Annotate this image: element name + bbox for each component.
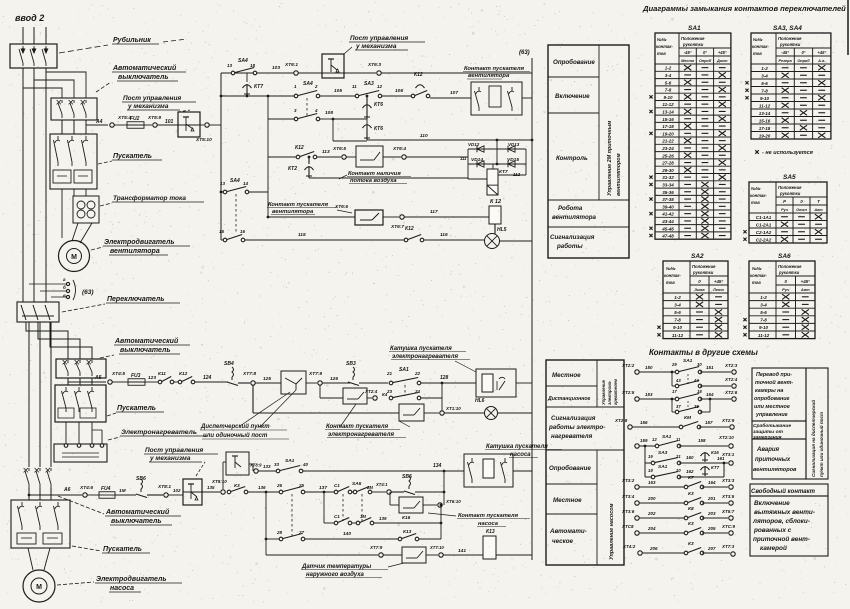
- heater starter coil box (катушка пускателя электронагревателя): [476, 369, 516, 397]
- lamp HL5: [485, 234, 500, 249]
- svg-text:17-18: 17-18: [759, 126, 771, 131]
- svg-text:SA5: SA5: [783, 174, 796, 181]
- wire starter to heater element: [65, 422, 67, 443]
- svg-text:ХТ2:4: ХТ2:4: [724, 377, 738, 382]
- svg-text:18: 18: [250, 63, 256, 68]
- wire diode bottom rail: [468, 178, 487, 180]
- svg-text:или одиночный пост: или одиночный пост: [203, 432, 268, 439]
- svg-text:ХТ8:1: ХТ8:1: [157, 484, 171, 490]
- svg-text:М: М: [71, 254, 77, 261]
- svg-text:140: 140: [343, 531, 351, 537]
- button SB3: [353, 367, 355, 377]
- pump table divider: [596, 450, 598, 565]
- wire starter to motor M2: [28, 548, 33, 570]
- svg-text:Свободный контакт: Свободный контакт: [751, 488, 816, 495]
- svg-text:101: 101: [165, 119, 174, 125]
- svg-text:рукоятки: рукоятки: [779, 42, 801, 47]
- svg-text:- не используется: - не используется: [762, 150, 814, 156]
- wire left control bus fan: [220, 73, 222, 240]
- table SA3, SA4 frame: [751, 33, 831, 139]
- svg-text:137: 137: [319, 485, 327, 491]
- svg-text:15: 15: [219, 229, 225, 234]
- svg-text:пункт или одиночный пост: пункт или одиночный пост: [818, 412, 824, 477]
- svg-text:2М: 2М: [366, 485, 373, 490]
- wire 134 to pump coil box: [303, 470, 464, 472]
- svg-text:15-16: 15-16: [759, 118, 771, 123]
- svg-text:Лето: Лето: [712, 287, 724, 292]
- svg-text:Пост управления: Пост управления: [145, 447, 203, 454]
- svg-text:камеры на: камеры на: [755, 388, 783, 394]
- svg-text:№№: №№: [657, 37, 667, 42]
- rung4 wire K12: [268, 156, 298, 158]
- svg-text:выключатель: выключатель: [111, 518, 162, 525]
- svg-text:1-2: 1-2: [665, 66, 672, 71]
- svg-text:3-4: 3-4: [665, 73, 672, 78]
- svg-text:Пускатель: Пускатель: [103, 546, 142, 553]
- svg-text:вентиляторов: вентиляторов: [753, 467, 797, 473]
- svg-text:37: 37: [676, 404, 681, 409]
- svg-text:тов: тов: [753, 51, 762, 56]
- svg-text:23-24: 23-24: [661, 146, 674, 151]
- contact row 159 SA1 12-11 158 XT2:10: [635, 444, 639, 448]
- svg-text:насоса: насоса: [110, 585, 134, 592]
- svg-text:рованных с: рованных с: [753, 527, 792, 534]
- wire 106: [382, 95, 413, 97]
- svg-text:30: 30: [697, 362, 702, 367]
- svg-text:Контроль: Контроль: [556, 155, 588, 162]
- wire XT5:10 to control bus: [209, 124, 221, 126]
- wire coil right connect: [498, 174, 526, 176]
- diode VD14: [477, 161, 484, 167]
- svg-text:Авт: Авт: [800, 287, 810, 292]
- svg-text:ХТ7:9: ХТ7:9: [369, 545, 383, 550]
- pump starter aux contact box К16: [389, 492, 391, 505]
- wire 101: [157, 124, 178, 126]
- svg-text:113: 113: [322, 149, 330, 155]
- terminal XT8:10: [221, 490, 225, 494]
- svg-text:17-18: 17-18: [662, 124, 674, 129]
- svg-text:41-42: 41-42: [661, 212, 674, 217]
- svg-text:Контакт пускателя: Контакт пускателя: [464, 66, 525, 72]
- svg-text:SB6: SB6: [136, 476, 146, 482]
- svg-text:Переключатель: Переключатель: [107, 296, 164, 303]
- contact SA4 3-4: [294, 117, 298, 121]
- svg-text:28: 28: [276, 530, 283, 535]
- svg-text:Положение: Положение: [681, 36, 705, 41]
- svg-text:Перевод при-: Перевод при-: [756, 372, 792, 378]
- svg-text:Дистанционное: Дистанционное: [547, 396, 591, 402]
- relay coil К13: [483, 536, 496, 559]
- svg-text:ввод 2: ввод 2: [15, 13, 44, 23]
- wire selector to heater breaker: [26, 322, 68, 359]
- wire diode row bottom: [468, 163, 526, 165]
- svg-text:11-12: 11-12: [758, 333, 770, 338]
- svg-text:контак-: контак-: [750, 273, 767, 278]
- wire control tap A5: [67, 378, 69, 382]
- contact К11: [158, 380, 162, 384]
- wire second path heater: [319, 385, 321, 398]
- wire 128: [421, 382, 476, 384]
- svg-text:замерзания: замерзания: [753, 436, 782, 441]
- svg-text:Управление насосом: Управление насосом: [609, 503, 615, 560]
- label Рубильник with leader: [59, 45, 108, 53]
- svg-text:37-38: 37-38: [662, 197, 674, 202]
- svg-text:Сигнализация: Сигнализация: [551, 415, 596, 422]
- svg-text:134: 134: [433, 463, 442, 469]
- contact 1М rung C: [352, 522, 358, 524]
- terminal XT8:1: [164, 493, 168, 497]
- svg-text:ХТ8:10: ХТ8:10: [211, 479, 227, 484]
- svg-text:135: 135: [207, 485, 215, 490]
- rung3 wire: [268, 118, 296, 120]
- wire 108: [320, 118, 333, 120]
- svg-text:31-32: 31-32: [662, 175, 674, 180]
- svg-text:тов: тов: [752, 280, 761, 285]
- wire 126: [322, 382, 350, 384]
- heater contact box 2: [343, 388, 367, 404]
- svg-text:КТ2: КТ2: [288, 166, 297, 172]
- svg-text:(63): (63): [82, 289, 94, 296]
- svg-text:19-20: 19-20: [662, 131, 674, 136]
- contact row XT2:2 150 SA1 29-30 151 XT2:3: [635, 370, 639, 374]
- svg-text:Руч: Руч: [781, 208, 789, 212]
- circuit breaker QF3 pump: [28, 468, 30, 471]
- svg-text:КТ7: КТ7: [711, 465, 720, 470]
- svg-text:156: 156: [640, 420, 648, 425]
- svg-text:3-4: 3-4: [674, 302, 681, 307]
- contact 26-25: [279, 490, 283, 494]
- svg-text:Катушка пускателя: Катушка пускателя: [486, 444, 548, 450]
- svg-text:HL5: HL5: [497, 227, 507, 233]
- svg-text:ХТ4:1: ХТ4:1: [375, 482, 388, 487]
- contact 23-24: [389, 396, 393, 400]
- vertical strip Сигнализация на диспетчерский пункт: [806, 368, 828, 479]
- svg-text:приточной вент-: приточной вент-: [753, 535, 810, 543]
- svg-text:К11: К11: [158, 371, 166, 377]
- relay coil КТ7: [492, 164, 494, 169]
- wire feeder phase B down: [33, 68, 35, 302]
- svg-text:нагревателя: нагревателя: [551, 433, 593, 440]
- vertical join x441: [440, 505, 442, 539]
- svg-text:ХТ6:7: ХТ6:7: [390, 224, 404, 230]
- svg-text:110: 110: [420, 133, 428, 139]
- contact К12 rung4: [296, 155, 300, 159]
- contact К12 rung2: [411, 94, 415, 98]
- contact C1 rung C: [334, 521, 338, 525]
- svg-text:13: 13: [227, 63, 233, 68]
- svg-text:1: 1: [294, 84, 297, 89]
- svg-text:Включение: Включение: [754, 500, 790, 507]
- dispatcher post box 1: [281, 371, 306, 394]
- circuit breaker QF2 heater: [56, 359, 106, 378]
- contact SA4 13-18: [231, 71, 235, 75]
- svg-text:SB3: SB3: [346, 361, 356, 367]
- svg-text:А6: А6: [63, 487, 71, 493]
- wire SB5 up to coil rung: [443, 471, 445, 505]
- svg-text:SA1: SA1: [662, 434, 672, 440]
- svg-text:Положение: Положение: [778, 36, 802, 41]
- wire К12 coil to lamp: [494, 224, 496, 234]
- svg-text:Датчик температуры: Датчик температуры: [301, 564, 372, 570]
- svg-text:43-44: 43-44: [661, 219, 674, 224]
- terminal XT4:1: [372, 491, 386, 493]
- svg-text:-45°: -45°: [684, 50, 692, 55]
- svg-text:159: 159: [640, 438, 648, 443]
- current transformer TA1 (трансформатор тока): [73, 196, 99, 223]
- svg-text:ХТ6:4: ХТ6:4: [392, 146, 406, 152]
- table SA6 frame: [749, 261, 815, 339]
- description box Перевод приточной венткамеры: [752, 368, 806, 421]
- svg-text:SA3: SA3: [364, 81, 374, 87]
- svg-text:выключатель: выключатель: [118, 74, 169, 81]
- terminal XT5:9: [144, 124, 152, 126]
- wire selector to pump feeder: [28, 322, 30, 467]
- svg-text:116: 116: [440, 232, 448, 238]
- svg-text:К16: К16: [711, 450, 719, 455]
- svg-text:Сигнализация: Сигнализация: [550, 234, 595, 241]
- wire CT to motor M1: [72, 223, 78, 241]
- wire branch to breaker QF1 pole 2: [34, 80, 74, 98]
- svg-text:К7: К7: [688, 475, 694, 481]
- svg-text:22: 22: [414, 371, 421, 376]
- svg-text:125: 125: [263, 376, 271, 382]
- svg-text:ХТ2:4: ХТ2:4: [364, 389, 378, 394]
- svg-text:у механизма: у механизма: [149, 455, 191, 462]
- svg-text:ХТ2:6: ХТ2:6: [724, 390, 738, 395]
- svg-text:0: 0: [800, 199, 803, 204]
- svg-text:43: 43: [675, 378, 681, 383]
- svg-text:VD15: VD15: [507, 157, 519, 163]
- svg-text:SA4: SA4: [238, 58, 248, 64]
- svg-text:15-16: 15-16: [662, 117, 674, 122]
- svg-text:44: 44: [693, 378, 699, 383]
- svg-text:9-10: 9-10: [760, 96, 770, 101]
- heater pilot contact box 3: [399, 404, 424, 421]
- box Свободный контакт: [750, 484, 828, 496]
- svg-text:у механизма: у механизма: [127, 103, 169, 110]
- svg-text:SA6: SA6: [778, 253, 791, 260]
- fan starter contact box (контакт пускателя вентилятора): [471, 82, 522, 115]
- svg-text:47-48: 47-48: [661, 234, 674, 239]
- svg-text:12: 12: [377, 84, 383, 89]
- svg-text:7-8: 7-8: [761, 88, 768, 93]
- svg-text:33: 33: [274, 462, 280, 467]
- contact КТ6 upper: [366, 104, 368, 119]
- svg-text:насоса: насоса: [478, 521, 499, 527]
- svg-text:Положение: Положение: [778, 185, 802, 190]
- svg-text:А4: А4: [95, 119, 103, 125]
- contact SA1 33-40: [276, 469, 280, 473]
- svg-text:насоса: насоса: [510, 452, 531, 458]
- svg-text:207: 207: [707, 546, 716, 551]
- terminal XT6:3 and wire to right bus: [344, 72, 376, 74]
- wire 140: [305, 538, 400, 540]
- svg-text:Включение: Включение: [555, 93, 590, 100]
- knife switch QS1 (рубильник): [10, 44, 57, 68]
- fuse FU2: [114, 124, 127, 126]
- contact row XT3:4 200 К3 201 XT3:5: [635, 501, 639, 505]
- svg-text:-45°: -45°: [781, 50, 789, 55]
- wire tap б to sheet 63: [40, 290, 66, 292]
- svg-text:9-10: 9-10: [663, 95, 673, 100]
- heater table divider vertical: [596, 360, 598, 407]
- terminal XT4:5 + fuse FU3: [108, 380, 112, 384]
- button SB5: [409, 476, 411, 486]
- svg-text:КТ6: КТ6: [374, 102, 383, 108]
- svg-text:33-34: 33-34: [662, 182, 674, 187]
- svg-text:КТ7: КТ7: [254, 84, 263, 90]
- fan table divider vertical: [598, 45, 600, 200]
- svg-text:КМ: КМ: [684, 415, 692, 421]
- svg-text:151: 151: [706, 365, 714, 370]
- relay КТ7 symbol bottom: [704, 466, 706, 476]
- svg-text:4: 4: [314, 108, 318, 113]
- svg-text:1М: 1М: [360, 514, 366, 519]
- svg-text:Р: Р: [783, 199, 786, 204]
- wire 1М: [115, 494, 136, 496]
- svg-text:К3: К3: [234, 483, 240, 489]
- heater table rows: [546, 385, 597, 387]
- svg-text:С1-1А1: С1-1А1: [756, 215, 772, 220]
- heater-pump function table frame: [546, 360, 624, 565]
- svg-text:тов: тов: [666, 280, 675, 285]
- svg-text:115: 115: [298, 232, 306, 238]
- wire rung2 branch vertical: [267, 95, 270, 98]
- svg-text:ХТ1:10: ХТ1:10: [445, 406, 461, 411]
- svg-text:С2-1А2: С2-1А2: [756, 230, 772, 235]
- svg-text:25-26: 25-26: [661, 153, 674, 158]
- contact row SA3 19-21 160 К16 coil: [645, 462, 653, 464]
- table SA5 header: [775, 182, 777, 243]
- svg-text:К12: К12: [405, 226, 414, 232]
- svg-text:точной вент-: точной вент-: [755, 379, 793, 386]
- wire branch to breaker QF1 pole 1: [46, 72, 86, 98]
- table SA2 frame: [663, 261, 728, 339]
- svg-text:КТ7: КТ7: [499, 169, 508, 175]
- svg-text:Сигнализация на диспетчерски: Сигнализация на диспетчерский: [810, 400, 816, 477]
- contact SA4 1-2: [294, 94, 298, 98]
- svg-text:К12: К12: [295, 145, 304, 151]
- contact row XT2:8 156 КМ 157 XT2:9: [628, 425, 632, 429]
- svg-text:Контакт наличия: Контакт наличия: [348, 171, 401, 177]
- svg-text:7-8: 7-8: [674, 318, 681, 323]
- svg-text:23: 23: [386, 389, 393, 394]
- svg-text:0: 0: [698, 279, 701, 284]
- svg-text:11-12: 11-12: [759, 103, 771, 108]
- contact row SA1 19-20 162 КТ7: [645, 476, 653, 478]
- svg-text:Зима: Зима: [694, 287, 705, 292]
- svg-text:160: 160: [686, 455, 694, 460]
- svg-text:Резерв: Резерв: [779, 59, 793, 63]
- pump starter coil box (катушка пускателя насоса): [464, 454, 513, 487]
- wire КТ6 loop: [333, 118, 367, 120]
- svg-text:ХТ2:10: ХТ2:10: [718, 435, 734, 440]
- svg-text:ХТ3:3: ХТ3:3: [721, 478, 735, 483]
- svg-text:1М: 1М: [119, 488, 127, 494]
- svg-text:158: 158: [698, 438, 706, 443]
- svg-text:11-12: 11-12: [662, 102, 674, 107]
- svg-text:29: 29: [671, 362, 677, 367]
- svg-text:107: 107: [450, 90, 458, 96]
- svg-text:Электронагреватель: Электронагреватель: [121, 429, 197, 436]
- svg-text:К13: К13: [486, 529, 495, 535]
- svg-text:27-28: 27-28: [661, 161, 674, 166]
- svg-text:24: 24: [414, 389, 421, 394]
- svg-text:ХТ2:2: ХТ2:2: [621, 363, 635, 368]
- left vertical pump x266: [265, 492, 267, 555]
- wire 124 to SB4: [195, 381, 228, 383]
- description box Авария приточных вентиляторов: [752, 439, 806, 479]
- svg-text:приточных: приточных: [755, 457, 791, 463]
- wire 117 to К12 coil: [404, 216, 489, 218]
- svg-text:контак-: контак-: [656, 44, 673, 49]
- terminal XT6:5: [342, 155, 346, 159]
- svg-text:13: 13: [220, 181, 226, 186]
- wire 107 to starter-contact box: [430, 97, 471, 99]
- wire 133: [258, 470, 278, 472]
- svg-text:5-6: 5-6: [674, 310, 681, 315]
- svg-text:9-10: 9-10: [673, 325, 683, 330]
- svg-text:SA5: SA5: [352, 481, 362, 487]
- svg-text:157: 157: [705, 420, 713, 425]
- contact row 37-38 branch: [671, 399, 673, 412]
- wire 139: [374, 522, 441, 524]
- svg-text:SA1: SA1: [683, 358, 693, 364]
- wire breaker QF2 to starter: [79, 378, 81, 385]
- svg-text:Трансформатор тока: Трансформатор тока: [113, 195, 186, 202]
- svg-text:Пост управления: Пост управления: [123, 95, 181, 102]
- svg-text:13-14: 13-14: [759, 111, 771, 116]
- wire 110 line: [367, 139, 440, 141]
- svg-text:Контакт пускателя: Контакт пускателя: [268, 202, 329, 208]
- svg-text:Опробование: Опробование: [549, 465, 591, 472]
- svg-text:11-12: 11-12: [672, 333, 684, 338]
- svg-text:Местное: Местное: [553, 497, 582, 504]
- svg-text:126: 126: [330, 376, 338, 382]
- description box Включение вытяжных вентиляторов: [750, 496, 828, 556]
- svg-text:14: 14: [243, 181, 249, 186]
- svg-text:К3: К3: [688, 491, 694, 497]
- button SB6: [141, 479, 143, 489]
- terminal XT7:10: [426, 554, 438, 556]
- wire vertical x645: [644, 446, 646, 477]
- svg-text:ХТ4:5: ХТ4:5: [111, 371, 125, 377]
- svg-text:13-14: 13-14: [662, 109, 674, 114]
- terminal XT5:10: [200, 124, 204, 126]
- svg-text:ХТ3:1: ХТ3:1: [721, 452, 735, 457]
- svg-text:в: в: [63, 293, 66, 298]
- rung E wire sensor: [266, 554, 378, 556]
- svg-text:рукоятки: рукоятки: [692, 270, 714, 275]
- svg-text:К12: К12: [414, 72, 423, 78]
- lamp HL6: [444, 412, 485, 414]
- svg-text:выключатель: выключатель: [120, 347, 171, 354]
- svg-text:164: 164: [708, 480, 716, 485]
- svg-text:SB5: SB5: [402, 474, 412, 480]
- svg-text:Опроб: Опроб: [797, 59, 810, 63]
- svg-text:ХТС8: ХТС8: [621, 524, 634, 529]
- svg-text:электронагревателя: электронагревателя: [328, 432, 394, 438]
- svg-text:203: 203: [707, 511, 716, 516]
- svg-text:Положение: Положение: [778, 264, 802, 269]
- svg-text:12: 12: [652, 437, 657, 442]
- svg-text:Автоматический: Автоматический: [105, 508, 170, 516]
- svg-text:контак-: контак-: [750, 193, 767, 198]
- contact 28-27: [279, 537, 283, 541]
- svg-text:№№: №№: [666, 266, 676, 271]
- svg-text:потока воздуха: потока воздуха: [350, 178, 397, 184]
- svg-text:202: 202: [647, 511, 656, 516]
